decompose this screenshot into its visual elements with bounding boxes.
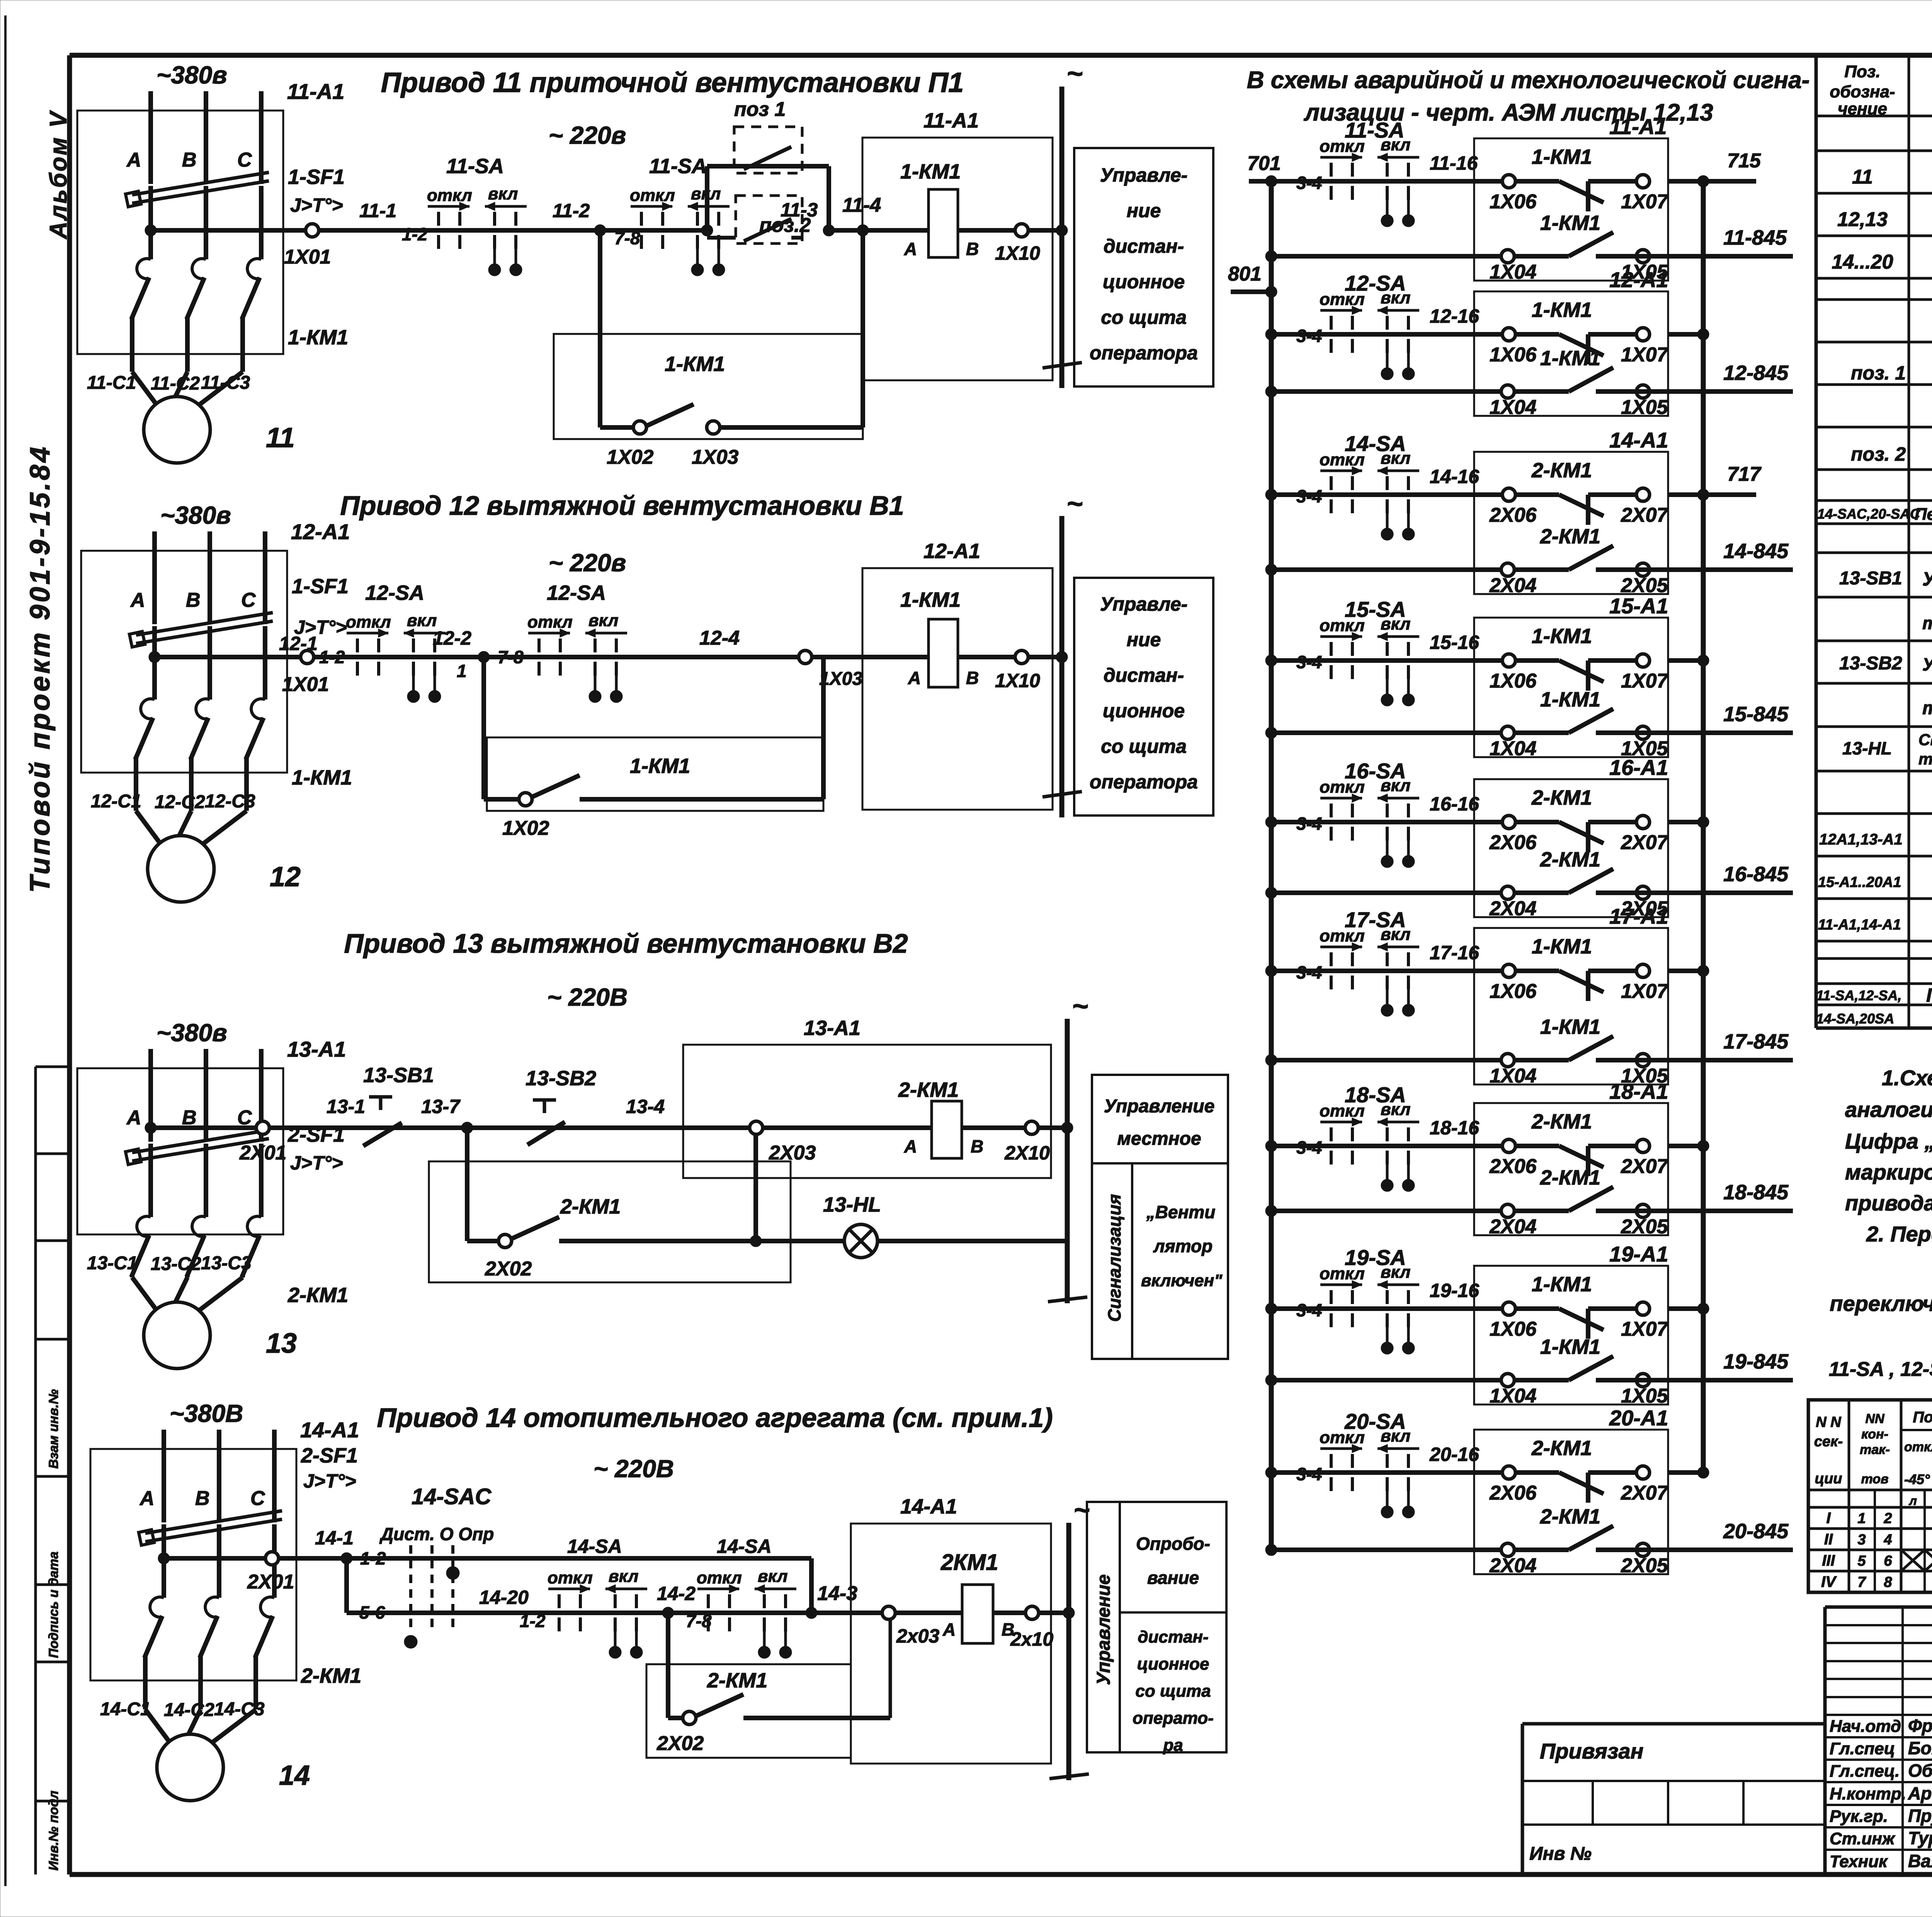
svg-text:1-КМ1: 1-КМ1: [630, 754, 690, 778]
svg-text:2-КМ1: 2-КМ1: [898, 1078, 959, 1102]
svg-text:16-845: 16-845: [1723, 863, 1789, 886]
svg-text:1-SF1: 1-SF1: [288, 165, 345, 189]
svg-text:15-А1: 15-А1: [1609, 594, 1668, 618]
svg-text:14...20: 14...20: [1832, 251, 1893, 273]
svg-text:12-SA: 12-SA: [1345, 271, 1406, 295]
svg-text:IV: IV: [1821, 1573, 1837, 1590]
svg-text:1-КМ1: 1-КМ1: [1532, 145, 1592, 169]
svg-text:801: 801: [1228, 263, 1262, 285]
svg-text:1X05: 1X05: [1621, 1385, 1668, 1407]
svg-text:2X07: 2X07: [1621, 1482, 1669, 1504]
svg-text:7: 7: [1857, 1574, 1866, 1590]
svg-text:II: II: [1824, 1531, 1833, 1548]
svg-text:2X05: 2X05: [1621, 1554, 1668, 1577]
svg-text:2X07: 2X07: [1621, 504, 1669, 526]
svg-text:11: 11: [1852, 166, 1873, 188]
svg-text:3-4: 3-4: [1296, 1464, 1322, 1484]
svg-text:13-С3: 13-С3: [201, 1253, 252, 1273]
svg-text:4: 4: [1883, 1532, 1892, 1548]
svg-text:1X03: 1X03: [692, 446, 739, 468]
svg-text:1.Схема управления приводами 1: 1.Схема управления приводами 15 . 20 ото…: [1882, 1066, 1932, 1090]
svg-text:2X10: 2X10: [1004, 1142, 1050, 1164]
svg-text:1-КМ1: 1-КМ1: [1532, 935, 1592, 958]
svg-text:13-А1: 13-А1: [287, 1037, 346, 1061]
svg-text:13-SB1: 13-SB1: [1839, 568, 1902, 589]
svg-text:1-КМ1: 1-КМ1: [1532, 1273, 1592, 1296]
svg-text:14-20: 14-20: [479, 1587, 529, 1608]
svg-text:14-SAC,20-SAC: 14-SAC,20-SAC: [1817, 506, 1920, 522]
svg-text:14-А1: 14-А1: [900, 1495, 957, 1518]
svg-text:ционное: ционное: [1137, 1655, 1209, 1674]
svg-text:1-КМ1: 1-КМ1: [1540, 347, 1600, 370]
svg-text:В: В: [195, 1487, 210, 1510]
svg-text:14-С2: 14-С2: [164, 1700, 214, 1720]
svg-text:оператора: оператора: [1090, 771, 1198, 793]
svg-text:кон-: кон-: [1861, 1427, 1888, 1442]
svg-text:2-КМ1: 2-КМ1: [1540, 525, 1600, 548]
svg-text:12-А1: 12-А1: [1609, 267, 1668, 292]
svg-text:2X02: 2X02: [656, 1732, 704, 1755]
svg-text:1X02: 1X02: [502, 817, 549, 839]
svg-text:~ 220в: ~ 220в: [549, 121, 626, 149]
svg-text:Привод 13 вытяжной вентустанов: Привод 13 вытяжной вентустановки В2: [344, 928, 908, 958]
svg-text:3-4: 3-4: [1296, 814, 1322, 834]
svg-text:20-SA: 20-SA: [1344, 1409, 1406, 1433]
svg-text:1-КМ1: 1-КМ1: [1532, 298, 1592, 322]
svg-text:1X07: 1X07: [1621, 980, 1669, 1003]
svg-text:13-SB2: 13-SB2: [526, 1067, 596, 1090]
svg-text:откл: откл: [527, 613, 573, 632]
svg-text:1X07: 1X07: [1621, 670, 1669, 692]
svg-text:14-SAC: 14-SAC: [412, 1484, 492, 1509]
svg-text:12А1,13-А1: 12А1,13-А1: [1819, 831, 1903, 848]
svg-text:1-SF1: 1-SF1: [292, 575, 349, 598]
svg-text:11: 11: [266, 422, 295, 453]
svg-text:11-SA: 11-SA: [446, 155, 504, 178]
svg-text:1-2: 1-2: [360, 1548, 386, 1568]
svg-text:3-4: 3-4: [1296, 652, 1322, 672]
svg-text:Привод 12 вытяжной вентустанов: Привод 12 вытяжной вентустановки В1: [340, 490, 904, 521]
svg-text:J>Т°>: J>Т°>: [303, 1470, 356, 1492]
svg-text:1X06: 1X06: [1490, 1318, 1537, 1340]
svg-text:17-А1: 17-А1: [1609, 904, 1668, 928]
svg-text:1X06: 1X06: [1490, 980, 1537, 1003]
svg-text:17-16: 17-16: [1430, 942, 1480, 964]
svg-text:2X07: 2X07: [1621, 1155, 1669, 1178]
svg-text:14-А1: 14-А1: [1609, 428, 1668, 452]
svg-text:1X04: 1X04: [1490, 737, 1537, 760]
svg-text:16-SA: 16-SA: [1345, 759, 1406, 783]
svg-text:12-2: 12-2: [433, 627, 471, 649]
svg-text:11-А1: 11-А1: [1609, 114, 1667, 139]
svg-text:ние: ние: [1127, 629, 1161, 650]
svg-text:местное: местное: [1117, 1129, 1201, 1149]
svg-text:ционное: ционное: [1103, 271, 1185, 293]
svg-text:11-SA,12-SA,: 11-SA,12-SA,: [1816, 987, 1901, 1003]
svg-text:вкл: вкл: [588, 611, 618, 630]
svg-text:17-845: 17-845: [1723, 1030, 1789, 1053]
svg-text:толкателем красного цвета, с с: толкателем красного цвета, с самовозврат…: [1922, 613, 1932, 633]
svg-text:1X05: 1X05: [1621, 396, 1668, 419]
svg-text:12-С2: 12-С2: [155, 792, 205, 812]
svg-text:2. Перечень атаратов приведе: 2. Перечень атаратов приведен для привод…: [1866, 1222, 1932, 1246]
svg-text:14-16: 14-16: [1430, 466, 1480, 487]
svg-text:дистан-: дистан-: [1104, 235, 1184, 257]
svg-text:1X06: 1X06: [1490, 670, 1537, 692]
svg-text:15-845: 15-845: [1723, 703, 1789, 726]
svg-text:1-КМ1: 1-КМ1: [665, 352, 725, 376]
svg-text:13-1: 13-1: [327, 1096, 365, 1117]
svg-text:19-845: 19-845: [1723, 1350, 1789, 1373]
svg-text:5: 5: [1857, 1553, 1866, 1569]
svg-text:2X02: 2X02: [485, 1258, 532, 1280]
svg-text:В схемы аварийной и технологич: В схемы аварийной и технологической сигн…: [1247, 67, 1810, 94]
svg-text:ние: ние: [1127, 200, 1161, 221]
svg-text:18-SA: 18-SA: [1345, 1083, 1406, 1107]
svg-text:тором с красным светофильтр: тором с красным светофильтром ~220В: [1918, 750, 1932, 768]
svg-text:2-КМ1: 2-КМ1: [287, 1284, 348, 1307]
svg-text:19-SA: 19-SA: [1345, 1245, 1406, 1270]
svg-text:сек-: сек-: [1814, 1433, 1843, 1450]
svg-text:14-1: 14-1: [315, 1527, 354, 1549]
svg-text:А: А: [139, 1487, 155, 1510]
svg-text:13: 13: [266, 1328, 297, 1359]
svg-text:Дист. О Опр: Дист. О Опр: [379, 1524, 494, 1544]
svg-text:со щита: со щита: [1101, 306, 1187, 328]
svg-text:2X05: 2X05: [1621, 1216, 1668, 1238]
svg-text:2X06: 2X06: [1489, 504, 1537, 526]
svg-text:Аронсон: Аронсон: [1908, 1783, 1932, 1803]
svg-text:NN: NN: [1865, 1411, 1885, 1426]
svg-text:1X06: 1X06: [1490, 344, 1537, 366]
svg-text:2X04: 2X04: [1489, 574, 1537, 597]
svg-text:2X04: 2X04: [1489, 897, 1537, 920]
svg-text:11-С2: 11-С2: [151, 373, 200, 394]
svg-text:18-А1: 18-А1: [1609, 1079, 1668, 1103]
svg-text:переключателей и терморегули: переключателей и терморегулирующих устро…: [1830, 1291, 1932, 1316]
svg-text:12-SA: 12-SA: [365, 581, 424, 604]
svg-text:В: В: [186, 589, 201, 611]
svg-text:Н.контр.: Н.контр.: [1830, 1784, 1906, 1803]
svg-text:19-16: 19-16: [1430, 1280, 1480, 1301]
svg-text:14-SA,20SA: 14-SA,20SA: [1816, 1011, 1894, 1027]
svg-text:12-А1: 12-А1: [291, 519, 350, 544]
svg-text:1-КМ1: 1-КМ1: [900, 588, 961, 611]
svg-text:18-16: 18-16: [1430, 1117, 1480, 1139]
svg-text:Ст.инж: Ст.инж: [1830, 1829, 1896, 1848]
svg-text:14-845: 14-845: [1723, 540, 1789, 563]
svg-text:А: А: [942, 1619, 956, 1639]
svg-text:Бондарь: Бондарь: [1908, 1738, 1932, 1758]
svg-text:15-SA: 15-SA: [1345, 597, 1406, 621]
svg-text:701: 701: [1247, 152, 1281, 175]
svg-text:Переключатель ПКУ3-58С2001У2 Т: Переключатель ПКУ3-58С2001У2 ТУ16-526.04…: [1915, 505, 1932, 524]
svg-text:11-А1: 11-А1: [923, 109, 979, 132]
svg-text:А: А: [904, 1136, 917, 1156]
svg-text:Цифра „14" в левой части об: Цифра „14" в левой части обозначений апп…: [1845, 1129, 1932, 1153]
svg-text:Взам инв.№: Взам инв.№: [46, 1389, 61, 1469]
svg-text:1-КМ1: 1-КМ1: [288, 326, 348, 349]
svg-text:В: В: [971, 1136, 983, 1156]
svg-text:2-КМ1: 2-КМ1: [1531, 1110, 1592, 1133]
svg-text:1-2: 1-2: [402, 224, 428, 244]
svg-text:11-845: 11-845: [1723, 226, 1787, 249]
svg-text:12-845: 12-845: [1723, 361, 1789, 385]
svg-text:N N: N N: [1816, 1414, 1842, 1430]
svg-text:Управление: Управление: [1104, 1096, 1215, 1117]
svg-text:III: III: [1822, 1552, 1835, 1569]
svg-text:3: 3: [1857, 1532, 1866, 1548]
svg-text:3-4: 3-4: [1296, 1300, 1322, 1320]
svg-text:1-КМ1: 1-КМ1: [292, 766, 352, 789]
svg-text:13-HL: 13-HL: [1842, 738, 1892, 758]
svg-text:~: ~: [1066, 489, 1083, 519]
svg-text:Инв №: Инв №: [1529, 1844, 1592, 1864]
svg-text:715: 715: [1727, 150, 1761, 172]
svg-text:Управление: Управление: [1094, 1574, 1114, 1685]
svg-text:15-16: 15-16: [1430, 632, 1480, 653]
svg-text:2x03: 2x03: [896, 1625, 939, 1647]
svg-text:1: 1: [457, 661, 467, 681]
svg-text:717: 717: [1727, 463, 1762, 485]
svg-text:2X01: 2X01: [247, 1571, 294, 1593]
svg-text:2-КМ1: 2-КМ1: [1531, 786, 1592, 809]
svg-text:11-А1: 11-А1: [287, 79, 344, 104]
svg-text:2X07: 2X07: [1621, 831, 1669, 854]
svg-text:12-1: 12-1: [279, 633, 318, 654]
svg-text:1X10: 1X10: [995, 242, 1040, 264]
svg-text:2X06: 2X06: [1489, 831, 1537, 854]
svg-text:обозна-: обозна-: [1830, 82, 1895, 101]
svg-text:Опробо-: Опробо-: [1136, 1534, 1210, 1554]
svg-text:12-4: 12-4: [699, 627, 740, 649]
svg-text:6: 6: [1884, 1553, 1892, 1569]
svg-text:Светосигнальная арматура с: Светосигнальная арматура с трансформа-: [1918, 730, 1932, 749]
svg-text:оператора: оператора: [1090, 342, 1198, 364]
svg-text:откл: откл: [548, 1568, 593, 1587]
svg-text:вкл: вкл: [609, 1567, 638, 1586]
svg-text:3-4: 3-4: [1296, 1137, 1322, 1158]
svg-text:С: С: [250, 1487, 265, 1510]
svg-text:8: 8: [1884, 1574, 1892, 1590]
svg-text:включен": включен": [1141, 1271, 1223, 1290]
svg-text:13-С2: 13-С2: [151, 1254, 201, 1274]
svg-text:J>Т°>: J>Т°>: [290, 194, 343, 216]
svg-text:откл: откл: [630, 186, 675, 205]
svg-text:11-С1: 11-С1: [87, 373, 136, 393]
svg-text:20-16: 20-16: [1429, 1444, 1480, 1465]
svg-text:вание: вание: [1147, 1568, 1199, 1588]
svg-text:поз. 2: поз. 2: [1851, 443, 1906, 465]
svg-text:2-КМ1: 2-КМ1: [1540, 1505, 1600, 1528]
svg-text:14: 14: [279, 1760, 310, 1791]
svg-text:1X06: 1X06: [1490, 191, 1537, 213]
svg-text:2-КМ1: 2-КМ1: [1531, 459, 1592, 482]
svg-text:ции: ции: [1815, 1471, 1842, 1487]
svg-text:~: ~: [1066, 58, 1083, 89]
svg-text:14-SA: 14-SA: [717, 1536, 772, 1557]
svg-text:Фролов: Фролов: [1908, 1716, 1932, 1736]
svg-text:Подпись и дата: Подпись и дата: [46, 1551, 61, 1658]
svg-text:2X04: 2X04: [1489, 1216, 1537, 1238]
svg-text:поз. 1: поз. 1: [1851, 362, 1906, 384]
svg-text:А: А: [908, 668, 921, 688]
svg-text:ционное: ционное: [1103, 700, 1185, 722]
svg-text:Валова: Валова: [1908, 1851, 1932, 1871]
svg-text:2КМ1: 2КМ1: [940, 1550, 998, 1575]
svg-text:1-2: 1-2: [520, 1611, 546, 1631]
svg-text:~ 220В: ~ 220В: [547, 983, 628, 1011]
svg-text:2-КМ1: 2-КМ1: [1540, 848, 1600, 871]
svg-text:2-КМ1: 2-КМ1: [560, 1195, 621, 1218]
svg-text:11-А1,14-А1: 11-А1,14-А1: [1818, 917, 1901, 933]
svg-text:Сигнализация: Сигнализация: [1104, 1194, 1124, 1322]
svg-text:поз 1: поз 1: [734, 98, 786, 121]
svg-text:~380в: ~380в: [156, 61, 227, 89]
svg-text:Нач.отд: Нач.отд: [1830, 1717, 1901, 1736]
svg-text:маркировки цепей меняется в: маркировки цепей меняется в соответствии…: [1845, 1160, 1932, 1184]
svg-text:В: В: [182, 149, 197, 171]
svg-text:откл: откл: [346, 613, 391, 632]
svg-text:1-КМ1: 1-КМ1: [1532, 625, 1592, 648]
svg-text:7-8: 7-8: [614, 228, 640, 248]
svg-text:Управле-: Управле-: [1100, 593, 1188, 615]
svg-text:А: А: [904, 239, 917, 259]
svg-text:13-А1: 13-А1: [804, 1016, 861, 1040]
svg-text:18-845: 18-845: [1723, 1181, 1789, 1204]
svg-text:14-SA: 14-SA: [1345, 431, 1406, 456]
svg-text:С: С: [237, 149, 252, 171]
svg-text:12-16: 12-16: [1430, 305, 1480, 327]
svg-text:Управляющий элемент КУ с ц: Управляющий элемент КУ с цилиндрическим …: [1922, 654, 1932, 674]
svg-text:А: А: [126, 1107, 141, 1129]
svg-text:13-SB2: 13-SB2: [1839, 653, 1902, 674]
svg-text:1X04: 1X04: [1490, 261, 1537, 283]
svg-text:тов: тов: [1861, 1472, 1888, 1486]
svg-text:Привод 14 отопительного агрег: Привод 14 отопительного агрегата (см. пр…: [377, 1403, 1053, 1433]
svg-text:откл: откл: [427, 186, 472, 205]
svg-text:1: 1: [1857, 1510, 1866, 1527]
svg-text:2-КМ1: 2-КМ1: [301, 1664, 361, 1687]
svg-text:Переключатель УП5312-А545: Переключатель УП5312-А545: [1926, 984, 1932, 1006]
svg-text:Обозная: Обозная: [1908, 1760, 1932, 1781]
svg-text:2: 2: [1883, 1510, 1892, 1527]
svg-text:„Венти: „Венти: [1146, 1202, 1216, 1222]
svg-text:12,13: 12,13: [1837, 208, 1888, 231]
svg-text:16-А1: 16-А1: [1609, 755, 1668, 780]
svg-text:11-2: 11-2: [553, 200, 590, 221]
svg-text:3-4: 3-4: [1296, 326, 1322, 346]
svg-text:А: А: [130, 589, 145, 611]
svg-text:откл: откл: [697, 1568, 742, 1587]
svg-text:1X01: 1X01: [282, 673, 329, 696]
svg-text:1X07: 1X07: [1621, 344, 1669, 366]
svg-text:13-HL: 13-HL: [823, 1193, 881, 1216]
svg-text:I: I: [1826, 1510, 1831, 1527]
svg-text:С: С: [241, 589, 256, 611]
svg-text:3-4: 3-4: [1296, 486, 1322, 506]
svg-text:13-С1: 13-С1: [87, 1253, 138, 1273]
svg-text:16-16: 16-16: [1430, 793, 1480, 815]
svg-text:19-А1: 19-А1: [1609, 1242, 1668, 1266]
svg-text:Типовой проект 901-9-15.84: Типовой проект 901-9-15.84: [25, 444, 56, 893]
svg-text:1X10: 1X10: [995, 670, 1040, 691]
svg-text:15-А1..20А1: 15-А1..20А1: [1818, 874, 1901, 890]
svg-text:Пруткова: Пруткова: [1908, 1806, 1932, 1826]
svg-text:вкл: вкл: [407, 611, 437, 630]
svg-text:аналогична приведенной схеме: аналогична приведенной схеме управления …: [1845, 1097, 1932, 1122]
svg-text:J>Т°>: J>Т°>: [290, 1152, 343, 1174]
svg-text:2X06: 2X06: [1489, 1482, 1537, 1504]
svg-text:14-А1: 14-А1: [300, 1418, 359, 1442]
svg-text:14-SA: 14-SA: [567, 1536, 622, 1557]
svg-text:3-4: 3-4: [1296, 173, 1322, 193]
svg-text:1X04: 1X04: [1490, 1065, 1537, 1087]
svg-text:дистан-: дистан-: [1104, 664, 1184, 686]
svg-text:откл.: откл.: [1904, 1440, 1932, 1454]
svg-text:1-КМ1: 1-КМ1: [1540, 211, 1600, 235]
svg-text:1X02: 1X02: [607, 446, 654, 468]
svg-text:со щита: со щита: [1101, 735, 1187, 757]
svg-text:В: В: [966, 668, 979, 688]
svg-text:вкл: вкл: [758, 1567, 787, 1586]
svg-text:3-4: 3-4: [1296, 962, 1322, 982]
svg-text:~: ~: [1072, 991, 1088, 1022]
svg-text:Туркот: Туркот: [1908, 1828, 1932, 1848]
svg-text:2x10: 2x10: [1010, 1628, 1053, 1650]
svg-text:Поз.: Поз.: [1844, 62, 1880, 81]
svg-text:14-2: 14-2: [657, 1583, 696, 1604]
svg-text:так-: так-: [1860, 1442, 1890, 1457]
svg-text:лятор: лятор: [1153, 1236, 1213, 1256]
svg-text:2-КМ1: 2-КМ1: [1540, 1166, 1600, 1189]
svg-text:1X04: 1X04: [1490, 396, 1537, 419]
svg-text:Положение рукоятки: Положение рукоятки: [1913, 1409, 1932, 1426]
svg-text:операто-: операто-: [1133, 1709, 1214, 1728]
svg-text:2-SF1: 2-SF1: [301, 1444, 358, 1467]
svg-text:~ 220В: ~ 220В: [594, 1455, 674, 1483]
svg-text:20-А1: 20-А1: [1609, 1406, 1668, 1430]
svg-text:Гл.спец.: Гл.спец.: [1830, 1762, 1900, 1781]
svg-text:1X07: 1X07: [1621, 191, 1669, 213]
svg-text:1-КМ1: 1-КМ1: [1540, 1015, 1600, 1039]
svg-text:20-845: 20-845: [1723, 1520, 1789, 1543]
svg-text:В: В: [966, 239, 979, 259]
svg-text:привода „ 15... 20.": привода „ 15... 20.": [1845, 1191, 1932, 1215]
svg-text:11-SA: 11-SA: [649, 155, 707, 178]
svg-text:~380в: ~380в: [160, 501, 231, 529]
svg-text:13-7: 13-7: [421, 1096, 461, 1117]
svg-text:2X04: 2X04: [1489, 1554, 1537, 1577]
svg-text:1-КМ1: 1-КМ1: [1540, 688, 1600, 711]
svg-text:12-А1: 12-А1: [923, 540, 980, 563]
svg-text:~380в: ~380в: [156, 1019, 227, 1047]
svg-text:2X06: 2X06: [1489, 1155, 1537, 1178]
svg-text:телем черного цвета с само: телем черного цвета с самовозвратом 1з, …: [1922, 698, 1932, 718]
svg-text:2-КМ1: 2-КМ1: [707, 1669, 767, 1692]
svg-text:1-2: 1-2: [319, 647, 345, 667]
svg-text:Привод 11 приточной вентустано: Привод 11 приточной вентустановки П1: [381, 67, 964, 98]
svg-text:12-SA: 12-SA: [547, 581, 606, 604]
svg-text:л: л: [1908, 1494, 1917, 1508]
svg-text:17-SA: 17-SA: [1345, 907, 1406, 932]
svg-text:13-4: 13-4: [626, 1096, 665, 1117]
svg-text:вкл: вкл: [488, 184, 518, 203]
svg-text:11-SA: 11-SA: [1345, 118, 1405, 142]
svg-text:Техник: Техник: [1830, 1852, 1888, 1871]
svg-text:Инв.№ подл: Инв.№ подл: [46, 1791, 61, 1871]
svg-text:11-SA , 12-SA , 14-SA... 20-SA: 11-SA , 12-SA , 14-SA... 20-SA: [1829, 1358, 1932, 1381]
